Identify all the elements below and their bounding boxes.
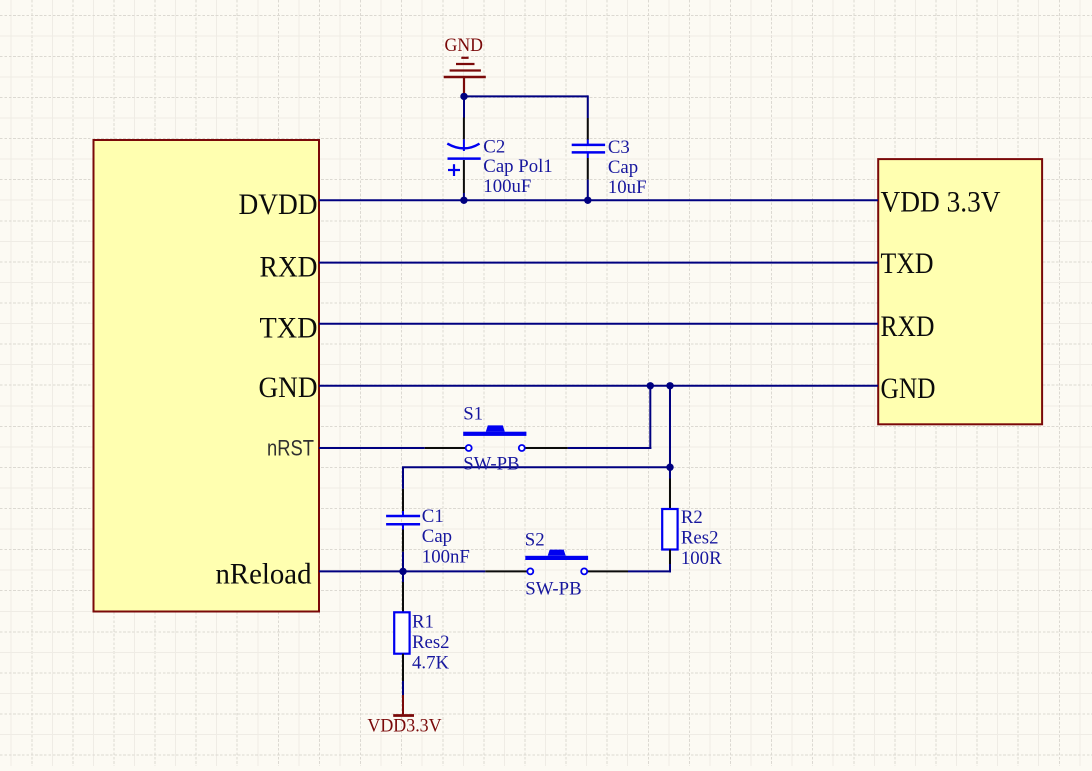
wire R1 bottom stub: [402, 681, 404, 695]
svg-text:TXD: TXD: [260, 313, 318, 345]
svg-text:S1: S1: [463, 404, 483, 425]
resistor R2 (Res2 100R): [662, 479, 677, 565]
svg-text:GND: GND: [881, 373, 936, 405]
switch S2 (SW-PB): [485, 550, 628, 575]
wire S1 right to GND rail: [568, 447, 652, 449]
svg-text:R2: R2: [681, 507, 703, 528]
svg-text:RXD: RXD: [260, 251, 318, 283]
sheet symbol U-left (MCU block): [94, 140, 320, 612]
svg-text:100uF: 100uF: [483, 176, 531, 197]
wire GND corner down to C3: [587, 95, 589, 118]
wire net DVDD / VDD3.3: [319, 199, 878, 201]
junction R2 branch / GND rail: [666, 382, 673, 389]
svg-text:VDD3.3V: VDD3.3V: [367, 715, 442, 736]
svg-text:100nF: 100nF: [422, 546, 470, 567]
svg-text:TXD: TXD: [881, 248, 934, 280]
wire nReload to S2: [319, 570, 485, 572]
svg-text:GND: GND: [259, 372, 318, 404]
svg-text:Cap: Cap: [422, 526, 452, 547]
wire nRST to S1: [319, 447, 425, 449]
wire GND stub to C2: [463, 93, 465, 118]
wire C1 top stub: [402, 467, 404, 489]
sheet symbol U-right (serial port block): [878, 159, 1042, 424]
svg-text:SW-PB: SW-PB: [525, 579, 581, 600]
svg-text:VDD 3.3V: VDD 3.3V: [881, 187, 1001, 219]
svg-text:DVDD: DVDD: [239, 189, 318, 221]
wire net GND rail: [319, 385, 878, 387]
svg-text:Cap Pol1: Cap Pol1: [483, 156, 552, 177]
svg-text:Res2: Res2: [412, 632, 450, 653]
resistor R1 (Res2 4.7K): [394, 582, 409, 681]
ground GND power port: [444, 58, 486, 93]
svg-text:Res2: Res2: [681, 528, 719, 549]
wire node row to C1 top: [402, 466, 671, 468]
junction at GND net top: [460, 93, 467, 100]
capacitor C1 (Cap 100nF): [386, 489, 420, 552]
wire R1 top stub: [402, 571, 404, 582]
svg-text:nReload: nReload: [216, 559, 312, 591]
svg-text:10uF: 10uF: [608, 177, 647, 198]
wire GND rail down to R2 node: [669, 386, 671, 479]
svg-text:nRST: nRST: [267, 436, 314, 461]
wire net GND top horizontal: [464, 95, 588, 97]
svg-text:RXD: RXD: [881, 311, 935, 343]
wire net TXD-RXD: [319, 323, 878, 325]
power VDD3.3V bar: [393, 695, 414, 716]
svg-text:C3: C3: [608, 137, 630, 158]
junction C2 / DVDD: [460, 197, 467, 204]
junction S1 wire / GND rail: [647, 382, 654, 389]
junction C1 / nReload rail: [399, 568, 406, 575]
capacitor C2 (Cap Pol1 100uF): [447, 118, 480, 200]
svg-text:C1: C1: [422, 506, 444, 527]
svg-text:R1: R1: [412, 612, 434, 633]
svg-text:100R: 100R: [681, 548, 722, 569]
junction R2 branch / C1 row: [666, 464, 673, 471]
svg-text:C2: C2: [483, 136, 505, 157]
wire S2 right to R2 bottom: [628, 570, 671, 572]
svg-text:GND: GND: [445, 35, 484, 56]
svg-text:4.7K: 4.7K: [412, 653, 449, 674]
wire net RXD-TXD: [319, 262, 878, 264]
svg-text:SW-PB: SW-PB: [463, 453, 519, 474]
svg-text:S2: S2: [525, 530, 545, 551]
wire C1 bottom stub: [402, 552, 404, 573]
svg-text:Cap: Cap: [608, 157, 638, 178]
capacitor C3 (Cap 10uF): [572, 118, 605, 199]
junction C3 / DVDD: [584, 197, 591, 204]
transistor-like switch S1 (SW-PB): [425, 425, 568, 451]
